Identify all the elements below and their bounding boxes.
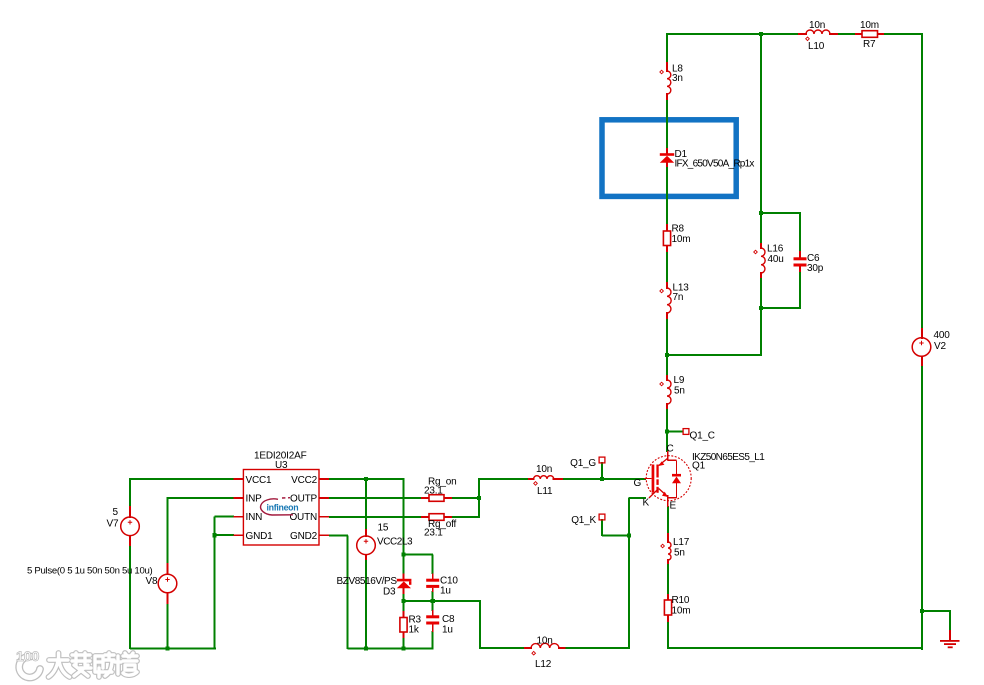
wire	[799, 213, 801, 252]
wire	[480, 647, 525, 649]
wire	[329, 497, 422, 499]
inductor L17	[661, 533, 690, 564]
voltage source V8	[27, 563, 177, 604]
junction	[431, 599, 435, 603]
wire	[666, 166, 668, 225]
wire	[329, 516, 422, 518]
junction	[600, 477, 604, 481]
svg-text:GND2: GND2	[290, 531, 318, 542]
svg-text:3n: 3n	[672, 73, 683, 84]
wire	[479, 478, 529, 480]
svg-text:400: 400	[934, 330, 951, 341]
svg-text:V8: V8	[146, 576, 158, 587]
svg-text:5n: 5n	[674, 548, 685, 559]
inductor L11	[528, 464, 563, 497]
svg-text:U3: U3	[275, 460, 288, 471]
voltage source V7	[107, 506, 140, 546]
wire	[347, 536, 349, 650]
svg-text:R7: R7	[863, 39, 876, 50]
wire	[167, 497, 169, 564]
inductor L9	[660, 375, 685, 409]
wire	[365, 479, 367, 530]
watermark logo	[16, 648, 40, 677]
wire	[562, 478, 646, 480]
inductor L12	[524, 636, 566, 671]
wire	[130, 478, 234, 480]
svg-text:1u: 1u	[440, 586, 451, 597]
junction	[165, 646, 169, 650]
junction	[212, 533, 216, 537]
svg-text:V7: V7	[107, 519, 119, 530]
wire	[214, 517, 216, 650]
svg-text:C: C	[667, 444, 674, 455]
resistor R3	[400, 611, 422, 638]
wire	[666, 251, 668, 283]
svg-text:G: G	[634, 478, 642, 489]
wire	[922, 610, 951, 612]
wire	[129, 478, 131, 507]
wire	[432, 591, 434, 602]
wire	[921, 33, 923, 329]
wire	[629, 497, 646, 499]
inductor L13	[660, 282, 689, 319]
svg-text:R8: R8	[672, 224, 685, 235]
svg-text:5 Pulse(0 5 1u 50n 50n 5u 10u): 5 Pulse(0 5 1u 50n 50n 5u 10u)	[27, 566, 153, 577]
wire	[760, 277, 762, 309]
wire	[667, 647, 923, 649]
svg-text:C8: C8	[442, 614, 455, 625]
wire	[667, 506, 669, 538]
wire	[601, 519, 603, 536]
wire	[167, 603, 169, 649]
junction	[401, 646, 405, 650]
svg-text:INN: INN	[246, 512, 263, 523]
wire	[348, 648, 434, 650]
capacitor C10	[426, 574, 458, 597]
wire	[666, 33, 799, 35]
wire	[760, 308, 762, 356]
wire	[760, 33, 762, 214]
wire	[403, 555, 405, 575]
voltage source V2	[912, 328, 950, 366]
svg-text:IFX_650V50A_Rp1x: IFX_650V50A_Rp1x	[675, 159, 755, 170]
junction	[401, 552, 405, 556]
wire	[666, 354, 760, 356]
wire	[667, 563, 669, 595]
wire	[883, 33, 923, 35]
svg-text:10m: 10m	[672, 234, 691, 245]
wire	[666, 99, 668, 149]
wire	[601, 462, 603, 480]
wire	[799, 271, 801, 309]
svg-text:E: E	[670, 501, 677, 512]
resistor R8	[663, 224, 690, 253]
junction	[364, 646, 368, 650]
wire	[451, 497, 480, 499]
svg-text:Q1: Q1	[692, 461, 706, 472]
wire	[365, 559, 367, 649]
svg-text:10m: 10m	[672, 606, 691, 617]
junction	[759, 211, 763, 215]
junction	[759, 306, 763, 310]
svg-text:L9: L9	[674, 375, 685, 386]
wire	[403, 479, 405, 555]
wire	[628, 498, 630, 650]
wire	[215, 534, 235, 536]
svg-text:10n: 10n	[536, 464, 552, 475]
junction	[665, 429, 669, 433]
inductor L10	[798, 20, 838, 52]
svg-text:VCC2L3: VCC2L3	[377, 537, 413, 548]
node Q1_K	[571, 514, 605, 526]
capacitor C6	[794, 251, 824, 274]
svg-text:VCC1: VCC1	[246, 475, 273, 486]
svg-text:40u: 40u	[768, 254, 784, 265]
svg-text:V2: V2	[934, 341, 946, 352]
svg-text:7n: 7n	[673, 292, 684, 303]
resistor Rg_off	[421, 514, 457, 539]
svg-text:BZV8516V/PS: BZV8516V/PS	[337, 576, 398, 587]
watermark text	[49, 653, 138, 677]
wire	[403, 637, 405, 649]
junction	[364, 477, 368, 481]
wire	[432, 601, 434, 611]
wire	[667, 431, 683, 433]
svg-text:Q1_K: Q1_K	[571, 515, 596, 526]
wire	[403, 593, 405, 612]
wire	[760, 307, 800, 309]
svg-text:L11: L11	[537, 486, 553, 497]
svg-text:GND1: GND1	[246, 531, 274, 542]
junction	[759, 32, 763, 36]
svg-text:10n: 10n	[809, 20, 825, 31]
wire	[949, 610, 951, 631]
resistor R10	[664, 594, 690, 622]
svg-text:L12: L12	[535, 659, 552, 670]
node Q1_C	[683, 429, 715, 442]
resistor R7	[855, 20, 884, 50]
wire	[760, 213, 762, 244]
svg-text:infineon: infineon	[267, 503, 299, 513]
wire	[666, 33, 668, 63]
wire	[129, 545, 131, 649]
wire	[602, 535, 630, 537]
junction	[401, 599, 405, 603]
svg-text:L17: L17	[673, 537, 690, 548]
zener diode D3	[337, 574, 412, 598]
wire	[478, 478, 480, 518]
svg-text:R10: R10	[672, 595, 690, 606]
svg-text:1k: 1k	[409, 625, 420, 636]
wire	[168, 497, 235, 499]
svg-text:30p: 30p	[807, 263, 824, 274]
svg-text:23.1: 23.1	[424, 528, 443, 539]
svg-text:10m: 10m	[860, 20, 879, 31]
transistor Q1 (IGBT IKZ50N65ES5_L1)	[634, 444, 766, 512]
svg-text:Q1_C: Q1_C	[690, 431, 715, 442]
svg-text:VCC2: VCC2	[291, 475, 318, 486]
wire	[130, 648, 216, 650]
wire	[215, 516, 235, 518]
inductor L8	[660, 62, 684, 100]
wire	[921, 365, 923, 650]
svg-text:15: 15	[378, 523, 389, 534]
svg-text:OUTN: OUTN	[289, 512, 317, 523]
svg-text:10n: 10n	[537, 636, 553, 647]
junction	[477, 496, 481, 500]
wire	[432, 631, 434, 649]
svg-text:1u: 1u	[442, 625, 453, 636]
wire	[666, 408, 668, 452]
voltage source VCC2L3	[357, 523, 413, 561]
capacitor C8	[426, 610, 455, 636]
wire	[329, 535, 348, 537]
svg-text:100: 100	[16, 648, 40, 664]
wire	[404, 600, 482, 602]
svg-text:Q1_G: Q1_G	[570, 458, 596, 469]
node Q1_G	[570, 457, 605, 469]
wire	[451, 516, 480, 518]
diode D1	[660, 148, 755, 170]
svg-text:K: K	[643, 498, 650, 509]
wire	[667, 621, 669, 649]
junction	[920, 609, 924, 613]
inductor L16	[754, 243, 784, 278]
wire	[761, 212, 801, 214]
ground	[940, 630, 960, 648]
svg-text:23.1: 23.1	[424, 486, 443, 497]
svg-text:5: 5	[113, 507, 119, 518]
svg-text:D3: D3	[383, 587, 396, 598]
wire	[432, 555, 434, 575]
wire	[666, 318, 668, 376]
wire	[479, 601, 481, 649]
wire	[565, 647, 630, 649]
junction	[665, 353, 669, 357]
wire	[837, 33, 856, 35]
svg-text:L16: L16	[767, 244, 784, 255]
svg-text:INP: INP	[246, 494, 263, 505]
svg-text:5n: 5n	[674, 386, 685, 397]
highlight box around D1	[602, 120, 736, 197]
resistor Rg_on	[421, 477, 456, 502]
junction	[627, 533, 631, 537]
op-amp U3 (gate driver 1EDI20I2AF)	[234, 451, 330, 546]
wire	[329, 478, 405, 480]
wire	[404, 554, 434, 556]
svg-text:L10: L10	[808, 41, 825, 52]
